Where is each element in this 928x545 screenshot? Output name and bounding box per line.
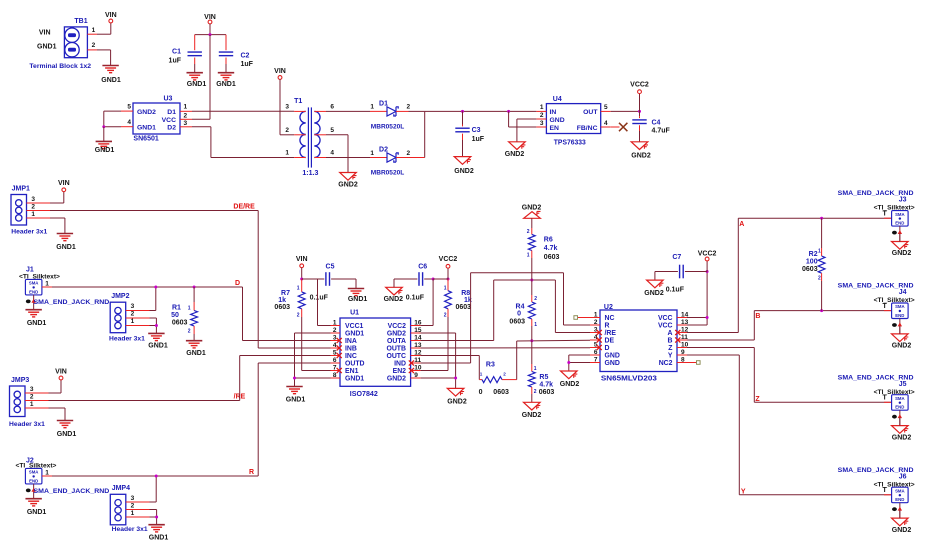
svg-text:OUTA: OUTA (387, 338, 406, 345)
svg-text:0603: 0603 (539, 389, 555, 396)
svg-text:2: 2 (30, 394, 34, 401)
wire OUTA to U2 /RE (421, 340, 494, 342)
svg-text:INC: INC (345, 353, 357, 360)
svg-text:3: 3 (184, 120, 188, 127)
resistor R1 50 (193, 286, 196, 289)
svg-text:GND2: GND2 (505, 151, 525, 158)
junction U1 gnd2 (454, 377, 457, 380)
junction VIN (209, 33, 212, 36)
svg-text:GND1: GND1 (186, 350, 206, 357)
svg-text:2: 2 (540, 112, 544, 119)
svg-text:0603: 0603 (509, 318, 525, 325)
svg-text:1: 1 (31, 211, 35, 218)
ground GND2 at C4 (631, 142, 648, 150)
svg-text:Y: Y (668, 353, 673, 360)
capacitor C5 (302, 278, 325, 280)
ground GND2 at T1 (340, 173, 357, 181)
svg-text:GND: GND (550, 117, 565, 124)
svg-text:B: B (668, 338, 673, 345)
ground GND2 at J4 (892, 334, 909, 342)
svg-text:A: A (739, 221, 744, 228)
svg-text:0603: 0603 (802, 266, 818, 273)
svg-text:3: 3 (131, 303, 135, 310)
svg-text:VCC: VCC (658, 315, 673, 322)
svg-text:Header 3x1: Header 3x1 (9, 421, 45, 428)
svg-text:GND1: GND1 (37, 44, 57, 51)
svg-text:T: T (883, 303, 888, 310)
power port VIN at T1 (278, 76, 282, 80)
svg-text:T: T (883, 395, 888, 402)
svg-text:VCC2: VCC2 (388, 323, 407, 330)
ic U1 ISO7842 (340, 318, 411, 386)
svg-text:1: 1 (534, 322, 537, 328)
svg-text:Header 3x1: Header 3x1 (11, 228, 47, 235)
svg-text:D1: D1 (167, 109, 176, 116)
svg-text:J3: J3 (899, 197, 907, 204)
svg-text:2: 2 (285, 127, 289, 134)
svg-text:DE/RE: DE/RE (233, 204, 255, 211)
svg-text:GND2: GND2 (522, 412, 542, 419)
svg-text:R4: R4 (516, 303, 525, 310)
header JMP3 (10, 386, 26, 417)
ground GND1 at TB1 (110, 50, 112, 66)
junction R6 R4 (530, 279, 533, 282)
svg-text:GND2: GND2 (631, 153, 651, 160)
svg-text:1: 1 (297, 285, 300, 291)
svg-text:C4: C4 (652, 119, 661, 126)
header JMP1 (11, 195, 27, 226)
svg-text:1: 1 (131, 318, 135, 325)
svg-text:SMA: SMA (895, 488, 905, 493)
terminal block TB1 (64, 27, 87, 58)
svg-text:VIN: VIN (296, 256, 308, 263)
wire U3 D2 to T1 pin1 (192, 126, 211, 128)
svg-text:D: D (235, 280, 240, 287)
svg-text:T: T (883, 210, 888, 217)
power port VCC2 at U1 (447, 268, 449, 279)
svg-text:VCC1: VCC1 (345, 323, 364, 330)
svg-text:2: 2 (527, 229, 530, 235)
svg-text:GND1: GND1 (148, 342, 168, 349)
svg-text:50: 50 (171, 312, 179, 319)
wire D to INA (243, 340, 331, 342)
svg-text:C1: C1 (172, 49, 181, 56)
svg-text:2: 2 (534, 296, 537, 302)
svg-text:GND2: GND2 (447, 398, 467, 405)
svg-text:MBR0520L: MBR0520L (371, 124, 405, 131)
svg-text:2: 2 (188, 329, 191, 335)
wire T1 pin5 to GND2 (326, 134, 348, 136)
wire DE/RE to INB (258, 347, 330, 349)
wire U3 gnd (103, 111, 105, 127)
svg-text:R2: R2 (809, 251, 818, 258)
svg-text:SN6501: SN6501 (133, 136, 159, 143)
svg-text:R1: R1 (172, 304, 181, 311)
svg-text:GND2: GND2 (387, 331, 406, 338)
svg-text:OUTC: OUTC (386, 353, 406, 360)
svg-text:VCC: VCC (162, 117, 176, 124)
svg-text:U1: U1 (350, 309, 359, 316)
svg-text:5: 5 (127, 104, 131, 111)
svg-text:JMP1: JMP1 (12, 186, 30, 193)
svg-text:1: 1 (45, 469, 49, 476)
svg-text:TPS76333: TPS76333 (554, 139, 586, 146)
svg-text:INA: INA (345, 338, 357, 345)
junction JMP2 to D (154, 286, 157, 289)
svg-text:2: 2 (407, 150, 411, 157)
svg-text:2: 2 (131, 311, 135, 318)
svg-text:GND: GND (605, 360, 620, 367)
svg-text:3: 3 (30, 386, 34, 393)
resistor R2 100 (821, 218, 823, 248)
svg-text:GND1: GND1 (345, 331, 364, 338)
svg-text:IND: IND (394, 361, 406, 368)
svg-text:2: 2 (131, 502, 135, 509)
wire R3 to U2 DE (516, 341, 518, 380)
svg-text:GND2: GND2 (387, 376, 406, 383)
ic U4 TPS76333 (546, 104, 600, 134)
svg-text:GND1: GND1 (286, 396, 306, 403)
capacitor C3 (462, 111, 464, 124)
svg-text:GND1: GND1 (149, 535, 169, 542)
svg-text:GND1: GND1 (137, 124, 156, 131)
wire net /RE (49, 400, 240, 402)
wire T1 pin4 to D2 (326, 157, 370, 159)
ground GND2 at C3 (454, 157, 471, 165)
wire U1 GND2 pins (421, 332, 456, 334)
svg-text:R5: R5 (539, 374, 548, 381)
svg-text:4: 4 (330, 150, 334, 157)
svg-text:JMP4: JMP4 (112, 485, 130, 492)
svg-text:2: 2 (818, 276, 821, 282)
ground GND2 at U1 (447, 388, 464, 396)
svg-text:2: 2 (503, 372, 506, 377)
svg-text:DE: DE (605, 338, 615, 345)
svg-text:0603: 0603 (493, 389, 509, 396)
header JMP4 (110, 494, 126, 525)
svg-text:GND1: GND1 (348, 296, 368, 303)
svg-text:U3: U3 (164, 96, 173, 103)
wire net DE/RE (50, 210, 258, 212)
svg-text:1: 1 (444, 285, 447, 291)
svg-text:J4: J4 (899, 289, 907, 296)
svg-text:3: 3 (31, 196, 35, 203)
svg-text:VCC2: VCC2 (630, 82, 649, 89)
junction at C3 (461, 110, 464, 113)
svg-text:C3: C3 (472, 127, 481, 134)
svg-text:GND1: GND1 (187, 81, 207, 88)
svg-text:EN: EN (550, 125, 560, 132)
svg-text:4.7k: 4.7k (544, 245, 558, 252)
ground GND1 at J2 (25, 498, 41, 500)
svg-text:GND2: GND2 (384, 296, 404, 303)
ground GND1 at JMP4 (148, 524, 164, 526)
svg-text:NC2: NC2 (659, 360, 673, 367)
svg-text:C6: C6 (418, 264, 427, 271)
ground GND2 at C6 (386, 287, 403, 295)
svg-text:VIN: VIN (39, 29, 51, 36)
svg-text:GND1: GND1 (101, 77, 121, 84)
svg-text:1: 1 (30, 401, 34, 408)
svg-text:END: END (895, 405, 904, 410)
svg-text:1: 1 (480, 372, 483, 377)
svg-text:D: D (605, 345, 610, 352)
junction R2 bottom (820, 309, 823, 312)
svg-text:VIN: VIN (274, 68, 286, 75)
ground GND1 at U3 (96, 140, 112, 142)
ground GND1 at C1 (187, 72, 203, 74)
svg-text:R: R (249, 469, 254, 476)
svg-text:GND1: GND1 (57, 431, 77, 438)
wire net R (52, 475, 258, 477)
svg-text:2: 2 (184, 113, 188, 120)
resistor R7 1k (301, 279, 303, 292)
svg-text:0603: 0603 (274, 304, 290, 311)
wire net Y (687, 354, 739, 356)
svg-text:0.1uF: 0.1uF (406, 294, 425, 301)
svg-text:1: 1 (45, 280, 49, 287)
svg-text:OUT: OUT (583, 109, 598, 116)
svg-text:GND1: GND1 (216, 81, 236, 88)
svg-text:2: 2 (534, 389, 537, 395)
junction at C4 (638, 110, 641, 113)
svg-text:SN65MLVD203: SN65MLVD203 (601, 376, 657, 383)
junction JMP2 gnd (155, 324, 158, 327)
svg-text:1uF: 1uF (472, 136, 485, 143)
capacitor C6 (393, 279, 395, 287)
svg-text:SMA: SMA (895, 396, 905, 401)
junction VIN R7 C5 (300, 278, 303, 281)
wire OUTB to U2 D (421, 347, 590, 349)
wire VCC2 pin16 (421, 325, 434, 327)
svg-text:NC: NC (605, 315, 615, 322)
ground GND2 at U2 (561, 371, 578, 379)
svg-text:VCC: VCC (658, 323, 673, 330)
wire net A (687, 332, 738, 334)
wire U4 OUT to VCC2 (611, 110, 640, 112)
ground GND2 below R5 (524, 402, 541, 410)
power port VIN at JMP1 (63, 192, 65, 203)
svg-text:GND2: GND2 (454, 168, 474, 175)
svg-text:TB1: TB1 (74, 18, 87, 25)
svg-text:C5: C5 (326, 264, 335, 271)
svg-text:VIN: VIN (204, 14, 216, 21)
svg-text:1:1.3: 1:1.3 (302, 170, 318, 177)
wire U2 VCC pins (687, 317, 707, 319)
junction U3 gnd (102, 125, 105, 128)
svg-text:1: 1 (184, 104, 188, 111)
svg-text:JMP2: JMP2 (111, 293, 129, 300)
wire U1 GND1 pins (295, 332, 331, 334)
ground GND2 at J6 (892, 518, 909, 526)
ground GND1 at JMP1 (64, 218, 66, 234)
svg-text:END: END (895, 497, 904, 502)
svg-text:1: 1 (92, 27, 96, 34)
svg-text:0603: 0603 (172, 320, 188, 327)
svg-text:Terminal Block 1x2: Terminal Block 1x2 (29, 63, 91, 70)
svg-text:END: END (895, 221, 904, 226)
no connect X at U4 FB (611, 126, 620, 128)
wire /RE to INC (240, 355, 331, 357)
power port VCC2 at U2 (706, 261, 708, 272)
wire U4 EN tie (508, 111, 510, 127)
svg-text:GND: GND (605, 353, 620, 360)
svg-text:OUTB: OUTB (386, 346, 406, 353)
svg-text:2: 2 (92, 42, 96, 49)
svg-text:D2: D2 (167, 124, 176, 131)
svg-text:1: 1 (818, 249, 821, 255)
wire VCC1 to VIN rail (317, 279, 319, 326)
svg-text:1: 1 (131, 510, 135, 517)
svg-text:GND2: GND2 (892, 434, 912, 441)
ground GND2 at U4 (509, 142, 526, 150)
svg-text:C7: C7 (672, 254, 681, 261)
svg-text:U2: U2 (604, 304, 613, 311)
svg-text:ISO7842: ISO7842 (350, 391, 378, 398)
svg-text:Header 3x1: Header 3x1 (112, 526, 148, 533)
svg-text:JMP3: JMP3 (11, 377, 29, 384)
wire net Z (687, 347, 754, 349)
svg-text:1: 1 (188, 306, 191, 312)
svg-text:C2: C2 (241, 53, 250, 60)
svg-text:R: R (605, 323, 610, 330)
svg-text:5: 5 (604, 104, 608, 111)
resistor R8 1k (447, 279, 449, 291)
junction at U4 input (507, 110, 510, 113)
resistor R4 0ohm (531, 280, 533, 295)
ground GND1 at J1 (25, 309, 41, 311)
svg-text:VIN: VIN (105, 12, 117, 19)
svg-text:MBR0520L: MBR0520L (371, 170, 405, 177)
svg-text:0603: 0603 (544, 254, 560, 261)
wire rectified rail to U4 (425, 110, 537, 112)
ic U3 SN6501 (133, 103, 180, 134)
svg-text:1: 1 (370, 104, 374, 111)
svg-text:1uF: 1uF (169, 58, 182, 65)
ground GND1 at C2 (218, 72, 234, 74)
ground GND2 at C7 (647, 280, 664, 288)
svg-text:3: 3 (540, 120, 544, 127)
svg-text:0.1uF: 0.1uF (310, 294, 329, 301)
svg-text:GND1: GND1 (95, 147, 115, 154)
svg-text:2: 2 (444, 312, 447, 318)
wire T1 pin6 to D1 (326, 110, 370, 112)
svg-text:EN2: EN2 (393, 368, 407, 375)
power port VIN at U1 (300, 264, 304, 268)
svg-text:VCC2: VCC2 (698, 250, 717, 257)
wire U4 GND to GND2 (517, 118, 537, 120)
svg-text:J1: J1 (26, 267, 34, 274)
header JMP2 (110, 302, 126, 333)
resistor R6 4.7k (531, 218, 533, 228)
svg-text:A: A (668, 330, 673, 337)
svg-text:4.7uF: 4.7uF (652, 127, 671, 134)
svg-text:1: 1 (370, 150, 374, 157)
svg-text:Z: Z (755, 396, 760, 403)
wire VIN down to U3 VCC (209, 35, 211, 120)
svg-text:OUTD: OUTD (345, 361, 365, 368)
no connect U2 pin 1 (578, 317, 591, 319)
junction U2 vcc (706, 316, 709, 319)
junction JMP4 gnd (155, 516, 158, 519)
svg-text:2: 2 (407, 104, 411, 111)
svg-text:EN1: EN1 (345, 368, 359, 375)
svg-text:B: B (755, 313, 760, 320)
svg-text:END: END (29, 289, 38, 294)
svg-text:T1: T1 (294, 98, 302, 105)
power port VCC2 at U4 (639, 94, 641, 112)
svg-text:U4: U4 (553, 96, 562, 103)
svg-text:J6: J6 (899, 473, 907, 480)
wire net B (687, 339, 754, 341)
svg-text:R6: R6 (544, 237, 553, 244)
svg-text:GND2: GND2 (338, 182, 358, 189)
svg-text:END: END (895, 313, 904, 318)
svg-text:GND2: GND2 (892, 527, 912, 534)
svg-text:J5: J5 (899, 381, 907, 388)
svg-text:0603: 0603 (456, 304, 472, 311)
wire diode outputs join (409, 110, 425, 112)
svg-text:END: END (29, 478, 38, 483)
svg-text:4: 4 (604, 120, 608, 127)
svg-text:3: 3 (285, 103, 289, 110)
input X marks on U1 (337, 338, 342, 343)
svg-text:4: 4 (127, 119, 131, 126)
svg-text:GND2: GND2 (560, 381, 580, 388)
svg-text:SMA: SMA (895, 304, 905, 309)
svg-text:GND1: GND1 (27, 509, 47, 516)
junction VCC2 C7 (706, 270, 709, 273)
svg-text:INB: INB (345, 346, 357, 353)
wire R to OUTD (258, 362, 330, 364)
X marks on U2 (597, 330, 602, 335)
ground GND2 at J5 (892, 426, 909, 434)
ground GND1 at U1 (286, 386, 302, 388)
svg-text:Y: Y (741, 488, 746, 495)
svg-text:GND1: GND1 (56, 244, 76, 251)
capacitor C4 (639, 111, 641, 116)
svg-text:1: 1 (527, 253, 530, 259)
svg-text:1: 1 (285, 150, 289, 157)
svg-text:6: 6 (330, 103, 334, 110)
wire net D (52, 286, 243, 288)
power port VIN at JMP3 (60, 380, 62, 393)
svg-text:SMA_END_JACK_RND: SMA_END_JACK_RND (34, 299, 110, 306)
ic U2 SN65MLVD203 (600, 310, 677, 372)
svg-text:5: 5 (330, 127, 334, 134)
svg-text:SMA: SMA (29, 470, 39, 475)
junction R2 top (820, 217, 823, 220)
wire U2 GND pins (569, 354, 590, 356)
svg-text:0: 0 (517, 311, 521, 318)
svg-text:1: 1 (534, 366, 537, 372)
wire VIN to C1 and C2 (195, 34, 226, 36)
capacitor C1 (194, 35, 196, 51)
svg-text:GND2: GND2 (892, 250, 912, 257)
svg-text:0.1uF: 0.1uF (666, 287, 685, 294)
svg-text:GND1: GND1 (27, 320, 47, 327)
svg-text:1: 1 (540, 104, 544, 111)
svg-text:R3: R3 (486, 361, 495, 368)
svg-text:VIN: VIN (58, 180, 70, 187)
capacitor C7 (685, 271, 707, 273)
svg-text:GND1: GND1 (345, 376, 364, 383)
svg-text:GND2: GND2 (522, 205, 542, 212)
svg-text:SMA: SMA (29, 281, 39, 286)
svg-text:4.7k: 4.7k (539, 382, 553, 389)
svg-text:100: 100 (806, 259, 818, 266)
power port VIN above C1 C2 (208, 20, 212, 24)
